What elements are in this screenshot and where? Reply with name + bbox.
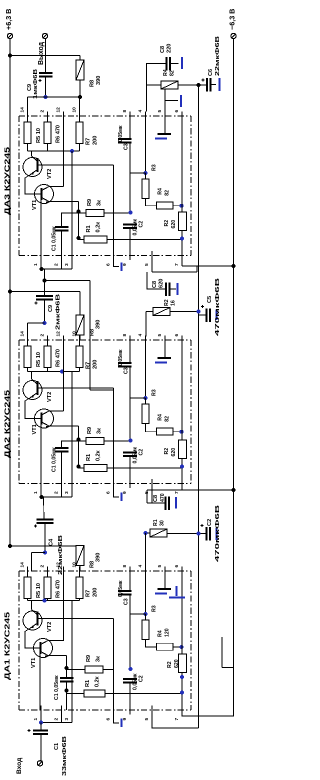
stage1 pin7 to -6,3V bus: [181, 260, 183, 266]
node pin4 wire of ДА3 К2УС245: [145, 116, 147, 173]
wire R2 bottom to pin7 DA1: [181, 673, 183, 711]
svg-text:14: 14: [19, 107, 25, 113]
svg-text:R2: R2: [164, 448, 170, 455]
svg-text:0,05мк: 0,05мк: [133, 673, 139, 690]
svg-text:2: 2: [53, 263, 59, 266]
input tie wire DA1: [40, 710, 42, 723]
pin5 bottom wire DA1: [152, 715, 199, 729]
svg-text:R1: R1: [153, 519, 159, 526]
svg-text:0,05мк: 0,05мк: [118, 349, 124, 366]
svg-text:С2: С2: [139, 449, 145, 456]
coupling node s1-s2: [44, 269, 46, 281]
terminal output Vyhod: [42, 33, 47, 38]
bias rail of ДА3 К2УС245: [28, 150, 80, 152]
svg-text:2: 2: [39, 334, 45, 337]
capacitor C3 0,05mk of ДА2 К2УС245: [129, 340, 131, 363]
+6,3V junction s2: [8, 290, 12, 294]
svg-text:7: 7: [174, 718, 180, 721]
svg-text:R1: R1: [86, 454, 92, 461]
svg-text:R9: R9: [87, 427, 93, 434]
transistor VT1 of ДА2 К2УС245: [35, 409, 54, 428]
resistor R2 620 of ДА2 К2УС245: [179, 440, 187, 459]
svg-text:4: 4: [137, 565, 143, 568]
wire VT2 base rail DA1: [38, 618, 114, 620]
node to C6 s1: [197, 83, 201, 87]
svg-text:1мкФ6В: 1мкФ6В: [33, 69, 39, 99]
svg-text:0,05мк: 0,05мк: [133, 447, 139, 464]
stage1 input tie wire: [40, 256, 42, 270]
node pin4 wire DA1: [145, 571, 147, 614]
svg-text:R6 470: R6 470: [56, 580, 62, 598]
resistor R5 10 of ДА3 К2УС245: [24, 122, 31, 144]
svg-text:ДА1 К2УС245: ДА1 К2УС245: [3, 612, 12, 680]
resistor R3 of ДА3 К2УС245: [142, 179, 149, 199]
svg-text:390: 390: [96, 553, 102, 562]
svg-text:7: 7: [174, 491, 180, 494]
capacitor C3 0,05mk DA1: [129, 571, 131, 591]
svg-text:С8: С8: [153, 495, 159, 502]
svg-text:С2: С2: [207, 519, 213, 526]
svg-text:8: 8: [122, 565, 128, 568]
resistor R3 DA1: [142, 620, 149, 640]
blue stub s1 pin6: [114, 260, 120, 267]
svg-text:620: 620: [171, 448, 177, 457]
ДА2 К2УС245 pins top edge: [27, 336, 29, 345]
resistor R9 3k of ДА3 К2УС245: [86, 210, 104, 217]
capacitor C5 470mkF s2: [199, 314, 207, 316]
svg-text:470мкФ6В: 470мкФ6В: [215, 278, 221, 336]
wire +6,3V rail left side: [9, 39, 11, 546]
capacitor C1 0,05mk of ДА2 К2УС245: [62, 441, 79, 448]
svg-text:R9: R9: [86, 655, 92, 662]
wire rail to VT2 collector of ДА2 К2УС245: [31, 372, 33, 380]
wire VT1 emitter of ДА2 К2УС245: [49, 425, 79, 427]
svg-text:R5 10: R5 10: [36, 352, 42, 367]
terminal +6,3V: [7, 33, 12, 38]
svg-text:R4: R4: [158, 188, 164, 195]
svg-text:3к: 3к: [96, 656, 102, 662]
pin6 top wire through R2 of ДА2 К2УС245: [181, 340, 183, 440]
wire VT1 collector to pin12 of ДА2 К2УС245: [49, 410, 64, 412]
pin3 column of ДА3 К2УС245: [71, 151, 73, 256]
svg-text:470мкФ6В: 470мкФ6В: [215, 505, 221, 562]
svg-text:С8: С8: [160, 46, 166, 53]
VT1 emitter wire DA1: [48, 655, 67, 657]
capacitor C9 1mkF output s1: [39, 72, 53, 74]
resistor R11 30 s3: [150, 529, 167, 537]
svg-text:С1 0,05мк: С1 0,05мк: [52, 447, 58, 472]
resistor R10 82 s1: [161, 81, 178, 89]
svg-text:1: 1: [33, 718, 39, 721]
svg-text:6: 6: [174, 110, 180, 113]
IC module ДА2 К2УС245 dash-dot box: [19, 339, 191, 341]
wire VT2 base rail of ДА2 К2УС245: [38, 387, 114, 389]
capacitor C8 620 s2: [147, 272, 166, 289]
svg-text:R7: R7: [86, 590, 92, 597]
wire VT2 base rail of ДА3 К2УС245: [38, 164, 114, 166]
svg-text:R8: R8: [90, 80, 96, 87]
bus -6,3V right side: [233, 39, 235, 668]
svg-text:6: 6: [174, 565, 180, 568]
emitter node column of ДА2 К2УС245: [78, 426, 80, 468]
svg-text:R7: R7: [86, 138, 92, 145]
svg-text:Выход: Выход: [38, 41, 45, 65]
capacitor C1 input 33mkF: [40, 723, 42, 731]
svg-text:33мкФ6В: 33мкФ6В: [62, 736, 68, 776]
wire VT1 base down to pin1 of ДА2 К2УС245: [40, 425, 42, 484]
svg-text:С3: С3: [124, 367, 130, 374]
resistor R8 390 s1: [76, 60, 84, 80]
stage2 input tie wire: [40, 484, 42, 498]
capacitor C1 0,05mk DA1: [66, 656, 68, 679]
svg-text:R4: R4: [163, 69, 169, 76]
svg-text:390: 390: [96, 76, 102, 85]
resistor R6 470 of ДА2 К2УС245: [44, 346, 51, 368]
svg-text:С1 0,05мк: С1 0,05мк: [54, 675, 60, 700]
svg-text:8: 8: [122, 334, 128, 337]
svg-text:2: 2: [53, 718, 59, 721]
bias rail of ДА2 К2УС245: [28, 371, 80, 373]
resistor R5 10 of DA1: [24, 577, 31, 599]
pin3 column of DA1: [71, 601, 73, 711]
svg-text:R4: R4: [158, 630, 164, 637]
emitter node column of ДА3 К2УС245: [78, 202, 80, 240]
resistor R8 390 s3: [76, 546, 84, 566]
svg-text:10: 10: [71, 331, 77, 337]
resistor R4 120 DA1: [157, 643, 174, 650]
transistor VT2 of DA1: [23, 611, 42, 630]
ДА3 К2УС245 pins bottom edge: [40, 251, 42, 260]
svg-text:10: 10: [71, 562, 77, 568]
capacitor C2 470mkF s3: [200, 525, 203, 527]
svg-text:R1: R1: [86, 225, 92, 232]
transistor VT2 of ДА2 К2УС245: [23, 381, 42, 400]
capacitor C8 470 s3: [165, 496, 167, 510]
svg-text:10: 10: [71, 107, 77, 113]
blue stub DA1 pin6: [114, 715, 120, 724]
svg-text:5: 5: [144, 263, 150, 266]
svg-text:12: 12: [55, 107, 61, 113]
svg-text:3: 3: [64, 491, 70, 494]
resistor R7 200 of DA1: [76, 577, 83, 599]
resistor R3 of ДА2 К2УС245: [142, 404, 149, 424]
resistor R12 16 s2: [153, 308, 170, 316]
svg-text:2: 2: [53, 491, 59, 494]
svg-text:5: 5: [157, 110, 163, 113]
resistor R7 200 of ДА3 К2УС245: [76, 122, 83, 144]
svg-text:R2: R2: [164, 299, 170, 306]
svg-text:620: 620: [171, 220, 177, 229]
svg-text:0,05мк: 0,05мк: [118, 580, 124, 597]
IC module DA1 dash-dot box: [19, 570, 191, 572]
svg-text:R7: R7: [86, 362, 92, 369]
svg-text:Вход: Вход: [16, 757, 23, 774]
svg-text:30: 30: [160, 520, 166, 526]
svg-text:2: 2: [39, 110, 45, 113]
capacitor C8 220 s1: [147, 64, 167, 112]
capacitor C6 22mkF s1: [199, 84, 208, 86]
svg-text:С6: С6: [208, 69, 214, 76]
svg-text:6: 6: [174, 334, 180, 337]
svg-text:12: 12: [55, 562, 61, 568]
svg-text:+6,3 В: +6,3 В: [4, 9, 13, 30]
VT1 collector to pin12 DA1: [48, 571, 64, 641]
svg-text:0,2к: 0,2к: [96, 222, 102, 233]
resistor R5 10 of ДА2 К2УС245: [24, 346, 31, 368]
capacitor C2 0,05mk DA1: [123, 678, 137, 680]
resistor R1 0,2k of ДА3 К2УС245: [84, 236, 107, 243]
R2 bottom to -6,3V DA1: [182, 668, 234, 716]
svg-text:470: 470: [160, 493, 166, 502]
svg-text:0,2к: 0,2к: [95, 676, 101, 687]
wire VT1 emitter of ДА3 К2УС245: [49, 201, 79, 203]
svg-text:VТ1: VТ1: [32, 200, 38, 210]
svg-text:С8: С8: [152, 281, 158, 288]
svg-text:4: 4: [137, 334, 143, 337]
stage2 pin7 to -6,3V bus: [181, 488, 183, 490]
DA1 pins top edge: [27, 567, 29, 576]
svg-text:VТ2: VТ2: [47, 169, 53, 179]
transistor VT1 of ДА3 К2УС245: [35, 185, 54, 204]
svg-text:R9: R9: [87, 199, 93, 206]
resistor R2 620 of ДА3 К2УС245: [179, 212, 187, 231]
transistor VT1 of DA1: [34, 639, 53, 658]
wire VT1 collector to pin12 of ДА3 К2УС245: [49, 186, 64, 188]
svg-text:5: 5: [157, 565, 163, 568]
svg-text:82: 82: [165, 416, 171, 422]
pin6 column DA1: [113, 619, 115, 711]
wire VT1 base down pin1 DA1: [39, 654, 41, 710]
svg-text:R2: R2: [167, 661, 173, 668]
svg-text:1: 1: [33, 491, 39, 494]
svg-text:0,05мк: 0,05мк: [133, 219, 139, 236]
svg-text:200: 200: [93, 136, 99, 145]
terminal -6,3V: [231, 33, 236, 38]
junction coupling to DA2 pin14: [43, 321, 47, 325]
svg-text:R6 470: R6 470: [56, 125, 62, 143]
svg-text:120: 120: [165, 628, 171, 637]
resistor R8 390 s2: [76, 315, 84, 335]
svg-text:6: 6: [105, 718, 111, 721]
svg-text:14: 14: [19, 331, 25, 337]
blue stub s2 pin6: [114, 488, 120, 497]
svg-text:3к: 3к: [97, 428, 103, 434]
pin5 inner cap of ДА3 К2УС245: [164, 116, 166, 133]
IC module ДА3 К2УС245 dash-dot box: [19, 115, 191, 117]
svg-text:2мкФ6В: 2мкФ6В: [56, 294, 62, 330]
svg-text:3к: 3к: [97, 200, 103, 206]
+6,3V junction s3: [8, 544, 12, 548]
svg-text:0,05мк: 0,05мк: [118, 125, 124, 142]
svg-text:С3: С3: [124, 598, 130, 605]
wire output down: [45, 39, 47, 73]
resistor R6 470 of DA1: [44, 577, 51, 599]
svg-text:ДА3 К2УС245: ДА3 К2УС245: [3, 147, 12, 215]
junction coupling to DA1 pin14: [43, 551, 47, 555]
pin5 inner cap of ДА2 К2УС245: [164, 340, 166, 357]
ground stub blue s1: [164, 89, 166, 101]
svg-text:5: 5: [144, 718, 150, 721]
pin5 inner cap DA1: [164, 571, 166, 588]
resistor R7 200 of ДА2 К2УС245: [76, 346, 83, 368]
svg-text:6: 6: [105, 263, 111, 266]
svg-text:R3: R3: [152, 389, 158, 396]
stage1 pin5 bottom wire: [151, 260, 153, 272]
svg-text:R1: R1: [85, 680, 91, 687]
svg-text:9: 9: [122, 491, 128, 494]
svg-text:82: 82: [165, 190, 171, 196]
svg-text:VТ2: VТ2: [47, 622, 53, 632]
svg-text:7: 7: [174, 263, 180, 266]
svg-text:R3: R3: [152, 605, 158, 612]
svg-text:9: 9: [122, 263, 128, 266]
svg-text:220: 220: [167, 44, 173, 53]
capacitor C3 0,05mk of ДА3 К2УС245: [129, 116, 131, 139]
bias rail of DA1: [28, 600, 80, 602]
resistor R9 3k DA1: [85, 666, 103, 673]
svg-text:620: 620: [159, 279, 165, 288]
svg-text:6: 6: [105, 491, 111, 494]
pin10 wire s1: [79, 97, 81, 116]
svg-text:3: 3: [64, 263, 70, 266]
svg-text:3: 3: [64, 718, 70, 721]
pin6 top wire DA1: [181, 571, 183, 654]
node pin4 wire of ДА2 К2УС245: [145, 340, 147, 398]
svg-text:С2: С2: [139, 221, 145, 228]
svg-text:R5 10: R5 10: [36, 583, 42, 598]
output node s1: [44, 95, 48, 99]
wire VT2 emitter to VT1 of DA1: [25, 628, 41, 648]
svg-text:2: 2: [39, 565, 45, 568]
svg-text:VТ1: VТ1: [31, 658, 37, 668]
svg-text:82: 82: [170, 70, 176, 76]
svg-text:14: 14: [19, 562, 25, 568]
svg-text:390: 390: [96, 320, 102, 329]
signal takeoff to DA3 pin8: [45, 280, 91, 282]
svg-text:9: 9: [122, 718, 128, 721]
resistor R2 620 DA1: [179, 654, 187, 673]
svg-text:−6,3 В: −6,3 В: [228, 9, 237, 30]
wire VT2 emitter to VT1 of ДА3 К2УС245: [25, 175, 41, 195]
svg-text:0,2к: 0,2к: [96, 450, 102, 461]
DA1 pins bottom edge: [40, 706, 42, 715]
svg-text:VТ1: VТ1: [32, 424, 38, 434]
capacitor C4 22mkF coupling DA1-DA2: [37, 519, 54, 521]
pin6 top wire through R2 of ДА3 К2УС245: [181, 116, 183, 212]
resistor R9 3k of ДА2 К2УС245: [86, 438, 104, 445]
svg-text:1: 1: [33, 263, 39, 266]
svg-text:R3: R3: [152, 164, 158, 171]
svg-text:С1 0,05мк: С1 0,05мк: [52, 226, 58, 251]
ДА3 К2УС245 pins top edge: [27, 112, 29, 121]
svg-text:620: 620: [174, 659, 180, 668]
svg-text:5: 5: [157, 334, 163, 337]
wire rail to VT2 collector of ДА3 К2УС245: [31, 151, 33, 156]
svg-text:С3: С3: [124, 143, 130, 150]
svg-text:С1: С1: [54, 743, 60, 750]
pin14 top wire s1: [27, 97, 29, 116]
capacitor C2 0,05mk of ДА3 К2УС245: [123, 224, 137, 226]
svg-text:ДА2 К2УС245: ДА2 К2УС245: [3, 390, 12, 458]
svg-text:16: 16: [171, 300, 177, 306]
wire bus corner lower: [221, 637, 223, 668]
resistor R6 470 of ДА3 К2УС245: [44, 122, 51, 144]
svg-text:С5: С5: [207, 296, 213, 303]
svg-text:200: 200: [93, 588, 99, 597]
stage2 pin5 bottom wires: [151, 488, 153, 503]
resistor R4 120 of ДА2 К2УС245: [157, 428, 174, 435]
resistor R4 120 of ДА3 К2УС245: [157, 202, 174, 209]
wire pin6 column of ДА3 К2УС245: [113, 165, 115, 256]
svg-text:R6 470: R6 470: [56, 349, 62, 367]
svg-text:R5 10: R5 10: [36, 128, 42, 143]
bus common rail: [198, 85, 200, 728]
resistor R1 0,2k DA1: [84, 690, 105, 697]
svg-text:VТ2: VТ2: [47, 392, 53, 402]
wire rail to VT2 of DA1: [31, 601, 33, 610]
svg-text:8: 8: [122, 110, 128, 113]
ДА2 К2УС245 pins bottom edge: [40, 479, 42, 488]
wire VT1 base down to pin1 of ДА3 К2УС245: [40, 200, 42, 256]
svg-text:200: 200: [93, 360, 99, 369]
capacitor C9 2mkF coupling DA2-DA3: [44, 281, 46, 297]
wire pin6 column of ДА2 К2УС245: [113, 388, 115, 484]
resistor R1 0,2k of ДА2 К2УС245: [84, 465, 107, 472]
svg-text:R2: R2: [164, 220, 170, 227]
svg-text:С9: С9: [48, 305, 54, 312]
svg-text:С4: С4: [49, 538, 55, 546]
junction +6,3V s1: [8, 54, 12, 58]
svg-text:22мкФ6В: 22мкФ6В: [215, 36, 221, 76]
terminal input: [37, 761, 42, 766]
svg-text:R4: R4: [158, 414, 164, 421]
coupling node s2-s3: [43, 497, 46, 520]
transistor VT2 of ДА3 К2УС245: [23, 158, 42, 177]
svg-text:12: 12: [55, 331, 61, 337]
wire VT2 emitter to VT1 of ДА2 К2УС245: [25, 398, 41, 419]
capacitor C1 0,05mk of ДА3 К2УС245: [62, 213, 79, 227]
capacitor C2 0,05mk of ДА2 К2УС245: [123, 452, 137, 454]
svg-text:4: 4: [137, 110, 143, 113]
pin3 column of ДА2 К2УС245: [71, 372, 73, 484]
blue ground mark DA1 pin5 area: [176, 586, 178, 596]
svg-text:С2: С2: [139, 675, 145, 682]
